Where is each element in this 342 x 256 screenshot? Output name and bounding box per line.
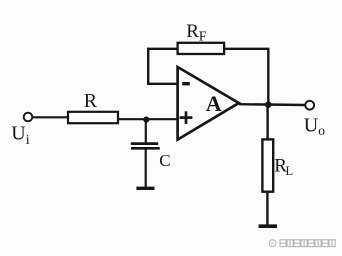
ground (capacitor) bbox=[136, 187, 154, 190]
wire vertical down to output node bbox=[267, 49, 269, 105]
node output junction bbox=[265, 101, 272, 108]
wire op-amp output bbox=[239, 103, 305, 106]
wire RF to output vertical bbox=[224, 48, 269, 50]
resistor R bbox=[68, 112, 118, 123]
svg-text:A: A bbox=[206, 91, 222, 116]
wire feedback top to RF bbox=[147, 48, 178, 50]
svg-text:RL: RL bbox=[274, 156, 293, 179]
wire R to op-amp + input bbox=[118, 118, 178, 120]
wire RL to ground bbox=[266, 192, 268, 225]
op-amp A triangle bbox=[178, 67, 239, 140]
op-amp inverting input marker (-) bbox=[182, 82, 190, 85]
watermark bbox=[269, 240, 335, 247]
svg-text:Ui: Ui bbox=[11, 122, 29, 148]
capacitor C bbox=[131, 144, 160, 149]
op-amp non-inverting input marker (+) bbox=[180, 111, 193, 124]
node input junction bbox=[143, 117, 149, 123]
wire junction down to capacitor bbox=[145, 119, 147, 143]
resistor RF bbox=[178, 43, 225, 54]
svg-text:C: C bbox=[159, 151, 170, 170]
wire feedback vertical left bbox=[147, 48, 149, 84]
wire output node down to RL bbox=[266, 105, 268, 140]
ground (RL) bbox=[259, 224, 277, 228]
svg-text:R: R bbox=[84, 90, 98, 112]
svg-text:RF: RF bbox=[186, 21, 207, 44]
resistor RL bbox=[262, 139, 273, 191]
wire capacitor to ground bbox=[145, 148, 147, 187]
input terminal Ui bbox=[24, 113, 33, 122]
output terminal Uo bbox=[305, 101, 314, 110]
svg-text:Uo: Uo bbox=[304, 115, 325, 139]
wire input to R bbox=[32, 116, 68, 118]
wire feedback to inverting input bbox=[147, 83, 178, 85]
